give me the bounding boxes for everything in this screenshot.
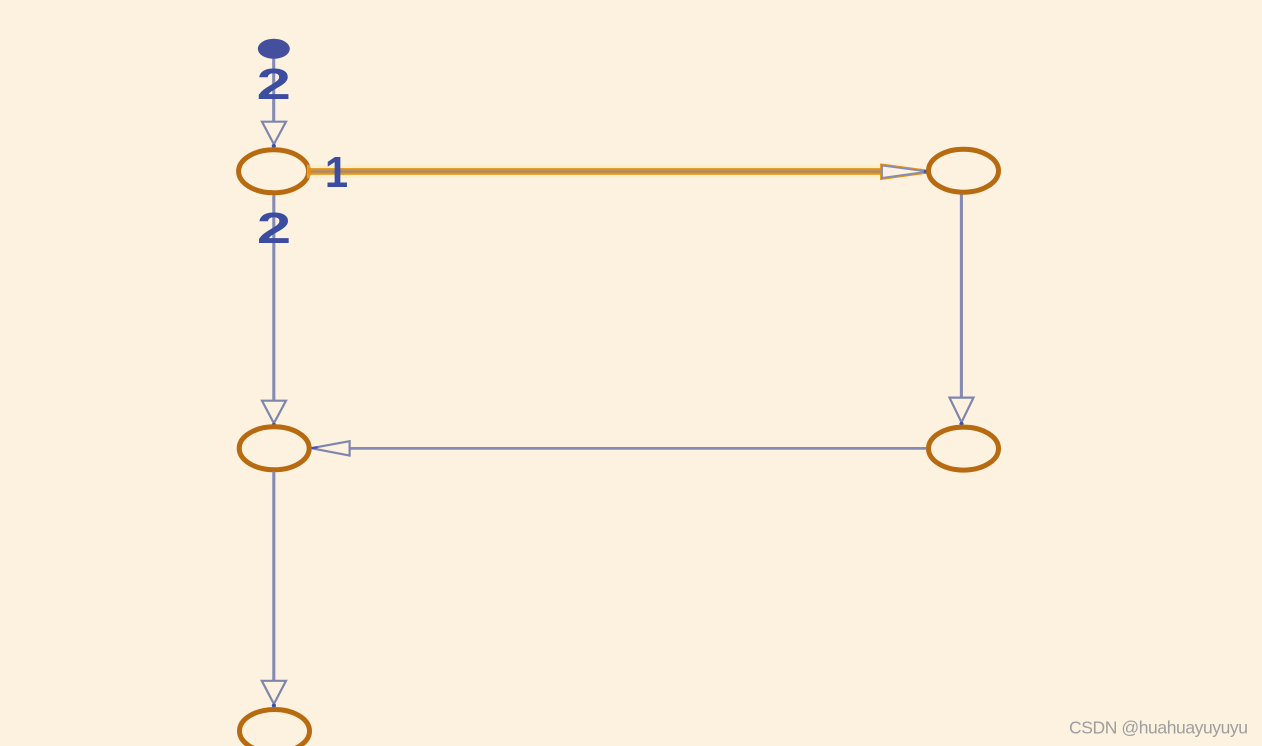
svg-text:2: 2	[257, 60, 291, 108]
state S3 (middle-left ellipse)	[239, 427, 309, 470]
state S1 (top-left ellipse)	[239, 150, 309, 193]
arrowhead tip dot	[272, 704, 276, 708]
arrowhead tip dot	[272, 144, 276, 148]
arrowhead into state S1 (open triangle, down)	[262, 122, 286, 145]
wire: transition S2->S4 vertical segment	[960, 195, 963, 398]
state S5 (bottom ellipse, partially visible)	[240, 710, 310, 746]
state S4 (bottom-right ellipse)	[929, 427, 999, 470]
highlighted transition S1->S2: glow	[307, 165, 884, 179]
svg-text:2: 2	[257, 204, 291, 252]
arrowhead into state S2 (open triangle, right)	[882, 166, 928, 178]
arrowhead into state S3 (open triangle, left)	[311, 441, 349, 455]
arrowhead into state S3 (open triangle, down)	[262, 401, 286, 424]
highlighted transition S1->S2: orange outline around arrowhead	[882, 166, 928, 178]
label 1 (highlighted transition)	[325, 148, 348, 197]
arrowhead into state S4 (open triangle, down)	[950, 398, 974, 423]
arrowhead tip dot	[959, 422, 963, 426]
arrowhead into state S5 (open triangle, down)	[262, 681, 286, 704]
svg-text:CSDN @huahuayuyuyu: CSDN @huahuayuyuyu	[1069, 718, 1248, 738]
svg-text:1: 1	[325, 148, 348, 197]
state S2 (top-right ellipse)	[929, 149, 999, 192]
wire: transition S3->S5 vertical segment	[272, 472, 275, 681]
wire: transition S4->S3 horizontal segment	[350, 447, 927, 450]
wire: underlying slate transition line S1->S2	[311, 170, 882, 172]
arrowhead tip dot	[924, 170, 928, 174]
arrowhead tip dot	[272, 423, 276, 427]
initial default-transition dot	[258, 39, 290, 59]
label 2 (default transition)	[257, 60, 291, 108]
highlighted transition S1->S2: orange highlight line	[308, 168, 883, 175]
arrowhead tip segment (blue)	[312, 447, 318, 448]
wire: default transition stem from initial dot down to state S1	[272, 49, 275, 122]
wire: transition S1->S3 vertical segment	[272, 195, 275, 401]
label 2 (transition S1->S3)	[257, 204, 291, 252]
